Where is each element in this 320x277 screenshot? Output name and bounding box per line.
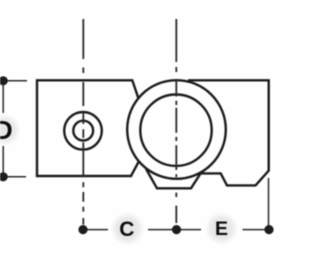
dot D top	[0, 76, 8, 85]
label E background blob	[205, 212, 238, 245]
vertical socket inner circle (bore)	[140, 95, 211, 166]
svg-text:D: D	[0, 115, 13, 145]
centerline of setscrew boss (dash-dot)	[82, 19, 84, 225]
setscrew inner circle	[73, 121, 93, 141]
fitting left sleeve body	[37, 80, 139, 176]
svg-text:E: E	[215, 218, 228, 240]
extension line from right edge	[268, 178, 270, 230]
fitting right sleeve body	[188, 80, 269, 185]
dot E right	[264, 225, 273, 234]
label D background blob	[0, 114, 21, 146]
centerline of vertical socket (dash-dot)	[175, 19, 177, 223]
dot D bottom	[0, 172, 8, 181]
setscrew boss outer circle	[64, 112, 102, 150]
label C background blob	[111, 212, 145, 246]
dimension line C-E horizontal	[83, 178, 269, 230]
dot C left	[78, 225, 87, 234]
tick bottom	[3, 176, 26, 178]
dimension D vertical line	[3, 81, 27, 177]
vertical socket outer circle	[127, 80, 226, 179]
dot C/E middle	[172, 225, 181, 234]
svg-text:C: C	[119, 218, 134, 241]
bottom lug trapezoid under socket	[146, 169, 201, 188]
tick top	[3, 80, 27, 82]
